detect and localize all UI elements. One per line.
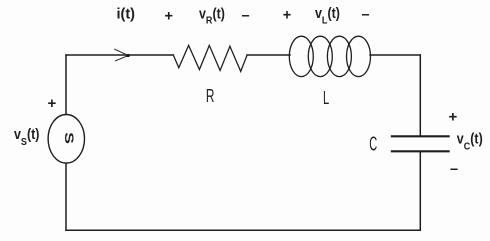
svg-text:+: +: [283, 7, 291, 23]
svg-text:vC(t): vC(t): [457, 131, 483, 153]
svg-text:S: S: [62, 132, 76, 144]
svg-text:+: +: [165, 8, 173, 24]
wire left vertical upper (source to top corner): [65, 55, 67, 115]
svg-text:i(t): i(t): [117, 7, 136, 23]
current arrow i(t) on top wire: [114, 49, 128, 61]
svg-text:vL(t): vL(t): [315, 5, 340, 26]
svg-text:–: –: [362, 7, 370, 23]
svg-text:–: –: [242, 8, 250, 24]
capacitor C plates: [391, 136, 450, 151]
svg-text:R: R: [206, 87, 215, 107]
wire top-left horizontal: [66, 54, 173, 56]
wire left vertical lower (source to bottom corner): [65, 163, 67, 230]
svg-text:+: +: [48, 95, 57, 112]
wire bottom horizontal: [66, 229, 420, 231]
svg-text:–: –: [450, 161, 458, 177]
inductor L : four loops: [289, 36, 370, 76]
svg-text:L: L: [323, 88, 329, 109]
wire inductor to top-right corner: [370, 54, 420, 56]
svg-text:C: C: [369, 133, 377, 155]
svg-text:vR(t): vR(t): [199, 6, 225, 27]
wire between resistor and inductor: [247, 54, 290, 56]
svg-text:vS(t): vS(t): [14, 126, 39, 148]
voltage source circle: [48, 115, 84, 164]
source sine symbol (sideways S): [62, 132, 76, 144]
resistor R: [173, 45, 247, 71]
svg-text:+: +: [449, 109, 458, 126]
wire right vertical upper (corner to capacitor): [419, 55, 421, 136]
wire right vertical lower (capacitor to bottom corner): [419, 152, 421, 231]
